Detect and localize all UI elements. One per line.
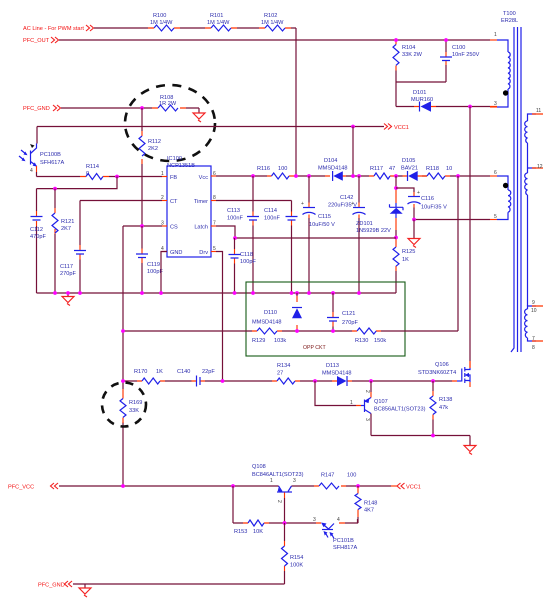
port VCC1 top (384, 124, 409, 132)
svg-text:2: 2 (276, 500, 282, 503)
svg-text:27: 27 (277, 371, 283, 377)
wire Vcc rail from IC pin 6 (216, 175, 490, 177)
junction gnd D110 (295, 291, 299, 295)
svg-text:150k: 150k (374, 338, 386, 344)
svg-text:R125: R125 (402, 249, 415, 255)
svg-text:Q107: Q107 (374, 399, 388, 405)
svg-text:Drv: Drv (199, 250, 208, 256)
wire Q107 base branch (315, 381, 356, 406)
junction gnd C115 (307, 291, 311, 295)
resistor R117 (369, 166, 395, 179)
junction gnd R121 (53, 291, 57, 295)
diode D105 BAV21 (401, 158, 422, 181)
wire CS rail (123, 225, 162, 227)
svg-text:270pF: 270pF (342, 320, 358, 326)
junction Vcc rail C142 (357, 174, 361, 178)
svg-text:10K: 10K (253, 529, 263, 535)
wire PFC_GND bottom rail (73, 583, 285, 585)
ground at aux winding return (408, 220, 420, 248)
svg-text:R117: R117 (370, 166, 383, 172)
svg-text:3: 3 (313, 517, 316, 523)
svg-text:R129: R129 (252, 338, 265, 344)
svg-text:MUR160: MUR160 (411, 97, 433, 103)
junction gnd C114 (290, 291, 294, 295)
wire ground rail (37, 292, 397, 294)
resistor R100 (148, 13, 180, 31)
resistor R104 (393, 40, 423, 82)
MOSFET Q106 STD3NK60ZT4 (418, 361, 470, 387)
svg-text:R101: R101 (210, 13, 223, 19)
svg-text:C121: C121 (342, 311, 355, 317)
junction Q108 base node (283, 521, 287, 525)
wire PFC_GND rail (61, 108, 199, 113)
junction R121 top (53, 187, 57, 191)
junction pin5 rail C116 (412, 218, 416, 222)
junction gate rail R138 (431, 379, 435, 383)
green box OPP CKT (246, 282, 405, 356)
wire PFC_VCC rail (59, 485, 391, 487)
svg-text:2K2: 2K2 (148, 146, 158, 152)
junction Latch C118 (233, 236, 237, 240)
svg-text:100nF: 100nF (227, 216, 243, 222)
svg-text:PFC_GND: PFC_GND (23, 106, 50, 112)
svg-text:R104: R104 (402, 45, 415, 51)
svg-text:6: 6 (494, 170, 497, 176)
junction zener C116 tap (394, 186, 398, 190)
svg-text:BAV21: BAV21 (401, 166, 418, 172)
svg-text:33K 2W: 33K 2W (402, 52, 423, 58)
svg-text:1M 1/4W: 1M 1/4W (150, 20, 173, 26)
diode D104 MMSD4148 (318, 158, 348, 181)
svg-text:C115: C115 (318, 214, 331, 220)
capacitor C118 (229, 238, 257, 293)
junction gnd C113 (251, 291, 255, 295)
junction PFC_OUT R104 (394, 38, 398, 42)
capacitor C116 polarized (396, 188, 447, 220)
svg-text:10: 10 (531, 308, 537, 314)
wire gate drive rail (123, 380, 452, 382)
wire FB filter branch (37, 177, 118, 189)
zener diode ZD101 1N5929B 22V (356, 176, 403, 238)
optocoupler PC100B SFH617A phototransistor (19, 144, 65, 175)
svg-text:BC856ALT1(SOT23): BC856ALT1(SOT23) (374, 407, 426, 413)
port PFC_VCC (8, 483, 58, 491)
svg-text:2: 2 (364, 390, 370, 393)
svg-text:Vcc: Vcc (199, 175, 209, 181)
junction PFC_VCC R169 column (121, 484, 125, 488)
svg-text:47k: 47k (439, 405, 448, 411)
svg-text:VCC1: VCC1 (394, 125, 409, 131)
junction D101 to drain line (468, 105, 472, 109)
svg-text:1: 1 (350, 400, 353, 406)
capacitor C112 (30, 189, 46, 293)
svg-text:9: 9 (532, 300, 535, 306)
svg-text:FB: FB (170, 175, 177, 181)
svg-text:C142: C142 (340, 195, 353, 201)
transistor Q107 BC856ALT1 (350, 381, 426, 436)
transformer secondary winding pins 9-10-7-8 (525, 300, 543, 351)
wire R153 branch (233, 486, 316, 523)
capacitor C115 polarized (301, 176, 335, 293)
svg-text:IC100: IC100 (167, 156, 182, 162)
resistor R112 (139, 131, 161, 164)
svg-text:D105: D105 (402, 158, 415, 164)
svg-text:R112: R112 (148, 139, 161, 145)
resistor R170 (134, 369, 165, 384)
svg-text:10: 10 (446, 166, 452, 172)
svg-text:100: 100 (278, 166, 287, 172)
svg-text:11: 11 (536, 108, 541, 114)
svg-text:R154: R154 (290, 555, 303, 561)
wire Q107 collector rail (371, 436, 470, 446)
resistor R102 (259, 13, 291, 31)
transformer aux winding pins 6-5 (490, 170, 511, 220)
resistor R169 (120, 389, 142, 423)
ground symbol main rail (62, 293, 74, 306)
wire Timer rail (216, 201, 292, 212)
junction gnd C118 (233, 291, 237, 295)
transformer T100 ER28L (501, 11, 518, 24)
svg-text:10uF/35 V: 10uF/35 V (421, 205, 447, 211)
wire OPP sense column left (122, 226, 124, 486)
svg-text:R114: R114 (86, 164, 99, 170)
svg-text:R130: R130 (355, 338, 368, 344)
svg-text:D113: D113 (326, 363, 339, 369)
svg-text:R118: R118 (426, 166, 439, 172)
svg-text:1K: 1K (402, 257, 409, 263)
svg-text:C112: C112 (30, 227, 43, 233)
svg-text:4: 4 (337, 517, 340, 523)
port PFC_GND bottom (38, 581, 72, 589)
svg-text:C116: C116 (421, 196, 434, 202)
junction gnd C117 (78, 291, 82, 295)
svg-text:SFH617A: SFH617A (40, 160, 65, 166)
junction gate rail Q107 base branch (313, 379, 317, 383)
svg-text:STD3NK60ZT4: STD3NK60ZT4 (418, 370, 456, 376)
wire snubber bottom rail (396, 82, 446, 107)
svg-text:220uF/35 V: 220uF/35 V (328, 203, 357, 209)
svg-text:4K7: 4K7 (364, 508, 374, 514)
svg-text:MMSD4148: MMSD4148 (322, 371, 352, 377)
diode D110 MMSD4148 (252, 293, 302, 331)
svg-text:470pF: 470pF (30, 234, 46, 240)
svg-text:10uF/50 V: 10uF/50 V (309, 222, 335, 228)
junction PFC_VCC R153 branch (231, 484, 235, 488)
diode D101 MUR160 (396, 90, 497, 112)
svg-text:VCC1: VCC1 (406, 485, 421, 491)
svg-text:1K: 1K (156, 369, 163, 375)
svg-text:1: 1 (270, 478, 273, 484)
svg-text:+: + (417, 190, 420, 196)
port VCC1 bottom (397, 483, 421, 491)
capacitor C142 polarized (328, 176, 366, 293)
junction Vcc rail startup column (294, 174, 298, 178)
svg-text:4: 4 (30, 168, 33, 174)
resistor R116 (257, 166, 294, 179)
svg-text:100: 100 (347, 473, 356, 479)
svg-text:C118: C118 (240, 252, 253, 258)
svg-text:AC Line - For PWM start: AC Line - For PWM start (23, 26, 84, 32)
junction gnd symbol (66, 291, 70, 295)
svg-text:T100: T100 (503, 11, 516, 17)
port AC Line - For PWM start (23, 25, 94, 32)
capacitor C100 (440, 40, 480, 82)
resistor R114 (80, 164, 109, 180)
junction CS node (140, 224, 144, 228)
junction gate rail left (121, 379, 125, 383)
wire OPP divider rail (123, 176, 458, 331)
svg-text:100pF: 100pF (240, 259, 256, 265)
resistor R148 (355, 486, 377, 523)
wire PFC_OUT rail to transformer pin 1 (59, 39, 490, 41)
svg-text:D110: D110 (264, 310, 277, 316)
svg-text:100K: 100K (290, 563, 303, 569)
junction FB filter branch (115, 175, 119, 179)
junction OPP rail left column (121, 329, 125, 333)
wire AC line rail (94, 28, 296, 176)
junction PFC_VCC R148 (356, 484, 360, 488)
resistor R153 (234, 520, 269, 535)
svg-text:SFH817A: SFH817A (333, 545, 358, 551)
svg-text:270pF: 270pF (60, 271, 76, 277)
svg-text:ER28L: ER28L (501, 18, 518, 24)
transformer core (511, 27, 521, 352)
wire VCC1 rail (37, 127, 384, 144)
wire IC GND pin to ground rail (161, 252, 167, 294)
svg-text:R116: R116 (257, 166, 270, 172)
svg-text:1N5929B 22V: 1N5929B 22V (356, 228, 391, 234)
svg-text:R170: R170 (134, 369, 147, 375)
svg-text:C117: C117 (60, 264, 73, 270)
svg-text:CT: CT (170, 199, 178, 205)
svg-text:ZD101: ZD101 (356, 221, 373, 227)
junction gate rail Q107 emitter (369, 379, 373, 383)
resistor R138 (430, 381, 452, 436)
junction gate rail Drv column (221, 379, 225, 383)
junction Vcc rail C115 (307, 174, 311, 178)
svg-text:PC101B: PC101B (333, 538, 354, 544)
svg-text:R134: R134 (277, 363, 290, 369)
optocoupler PC101B SFH817A LED (313, 517, 358, 551)
svg-text:10nF 250V: 10nF 250V (452, 52, 480, 58)
wire VCC1 to Vcc rail (352, 127, 354, 177)
svg-text:3: 3 (364, 418, 370, 421)
junction collector rail R138 (431, 434, 435, 438)
svg-text:GND: GND (170, 250, 182, 256)
svg-text:MMSD4148: MMSD4148 (252, 320, 282, 326)
svg-text:R100: R100 (153, 13, 166, 19)
svg-text:NCP1351B: NCP1351B (167, 163, 195, 169)
svg-text:3: 3 (293, 478, 296, 484)
svg-text:PC100B: PC100B (40, 152, 61, 158)
svg-text:R121: R121 (61, 219, 74, 225)
ground after R108 (193, 113, 205, 122)
transistor Q108 BC846ALT1 (252, 464, 304, 523)
svg-text:Timer: Timer (194, 199, 208, 205)
resistor R147 (314, 473, 356, 490)
svg-text:R148: R148 (364, 501, 377, 507)
svg-text:C100: C100 (452, 45, 465, 51)
junction Vcc rail VCC1 drop (351, 174, 355, 178)
svg-text:BC846ALT1(SOT23): BC846ALT1(SOT23) (252, 472, 304, 478)
svg-text:C119: C119 (147, 262, 160, 268)
svg-text:1: 1 (494, 32, 497, 38)
resistor R108 (152, 95, 186, 111)
svg-text:MMSD4148: MMSD4148 (318, 166, 348, 172)
svg-text:OPP CKT: OPP CKT (303, 345, 327, 351)
svg-text:R138: R138 (439, 397, 452, 403)
svg-text:R169: R169 (129, 400, 142, 406)
dashed circle highlight around R169 (102, 383, 146, 427)
resistor R129 (252, 328, 286, 344)
svg-text:PFC_VCC: PFC_VCC (8, 485, 34, 491)
wire aux pin5 rail (414, 219, 490, 221)
ground MOSFET source (464, 446, 476, 455)
svg-text:103k: 103k (274, 338, 286, 344)
junction gnd C119 (140, 291, 144, 295)
dashed circle highlight around R108 (125, 85, 215, 161)
junction Vcc rail C113 (251, 174, 255, 178)
wire Drv pin to gate rail (216, 252, 223, 382)
junction gnd C121 (331, 291, 335, 295)
svg-text:D104: D104 (324, 158, 337, 164)
svg-text:Q108: Q108 (252, 464, 266, 470)
junction PFC_OUT C100 (444, 38, 448, 42)
svg-text:+: + (301, 201, 304, 207)
svg-text:Latch: Latch (194, 225, 208, 231)
svg-text:PFC_OUT: PFC_OUT (23, 38, 50, 44)
junction VCC1 rail drop (351, 125, 355, 129)
junction Vcc rail zener branch (394, 174, 398, 178)
svg-text:7: 7 (532, 336, 535, 342)
svg-text:R147: R147 (321, 473, 334, 479)
svg-text:CS: CS (170, 225, 178, 231)
svg-text:100nF: 100nF (264, 216, 280, 222)
wire MOSFET drain line (469, 107, 471, 362)
svg-text:33K: 33K (129, 408, 139, 414)
junction OPP rail D110 (295, 329, 299, 333)
capacitor C119 (136, 226, 163, 293)
junction R112 to PFC_GND (140, 106, 144, 110)
svg-text:1M 1/4W: 1M 1/4W (207, 20, 230, 26)
svg-text:R153: R153 (234, 529, 247, 535)
port PFC_GND (23, 105, 61, 112)
svg-text:C113: C113 (227, 208, 240, 214)
ground bottom rail (79, 584, 91, 597)
junction gnd IC (159, 291, 163, 295)
svg-text:2K7: 2K7 (61, 226, 71, 232)
svg-text:Q106: Q106 (435, 362, 449, 368)
capacitor C113 (227, 176, 259, 293)
svg-text:1M 1/4W: 1M 1/4W (261, 20, 284, 26)
wire R112 column (141, 108, 143, 226)
transformer secondary winding pins 11-12 (525, 108, 543, 306)
svg-text:C114: C114 (264, 208, 277, 214)
junction OPP rail C121 (331, 329, 335, 333)
resistor R121 (52, 189, 74, 293)
capacitor C121 (327, 293, 358, 331)
capacitor C114 (264, 208, 298, 293)
resistor R130 (352, 328, 386, 344)
svg-text:47: 47 (389, 166, 395, 172)
resistor R118 (422, 166, 452, 179)
port PFC_OUT (23, 37, 59, 44)
transformer primary winding pins 1-3 (490, 32, 510, 107)
svg-text:C140: C140 (177, 369, 190, 375)
svg-text:12: 12 (537, 164, 543, 170)
svg-text:D101: D101 (413, 90, 426, 96)
svg-text:22pF: 22pF (202, 369, 215, 375)
junction gnd C142 (357, 291, 361, 295)
capacitor C140 (177, 369, 215, 387)
svg-text:PFC_GND: PFC_GND (38, 583, 65, 589)
junction Latch rail zener node (394, 236, 398, 240)
svg-text:0: 0 (86, 171, 89, 177)
svg-text:R102: R102 (264, 13, 277, 19)
wire FB rail (37, 172, 163, 177)
wire Latch rail (216, 226, 396, 238)
diode D113 MMSD4148 (322, 363, 352, 386)
svg-text:1R 2W: 1R 2W (159, 101, 177, 107)
junction Vcc rail OPP column (456, 174, 460, 178)
capacitor C117 (60, 245, 86, 293)
resistor R125 (393, 238, 415, 294)
resistor R101 (205, 13, 237, 31)
IC U1 IC100 NCP1351B box (167, 156, 211, 257)
resistor R154 (282, 523, 304, 584)
svg-text:8: 8 (532, 345, 535, 351)
resistor R134 (272, 363, 300, 384)
wire CT rail (80, 201, 162, 246)
